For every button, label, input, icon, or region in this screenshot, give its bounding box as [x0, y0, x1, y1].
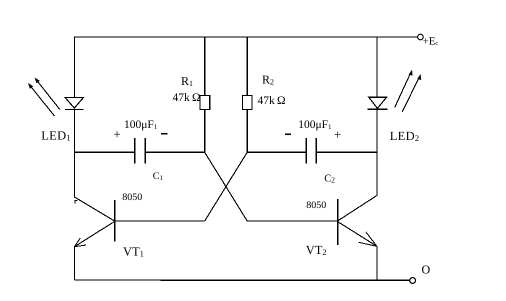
svg-text:LED2: LED2: [390, 129, 420, 143]
svg-text:100μF1: 100μF1: [124, 119, 158, 131]
label minus C1: [161, 133, 167, 135]
wire C1 left lead: [75, 151, 135, 153]
resistor R2 box: [243, 95, 253, 109]
capacitor C1: [135, 138, 145, 163]
svg-text:R1: R1: [181, 74, 193, 88]
transistor VT1 collector diagonal: [74, 197, 114, 221]
transistor VT2 collector diagonal: [338, 195, 378, 221]
resistor R1 box: [200, 95, 210, 109]
transistor VT1 base bar: [114, 200, 116, 241]
wire VT2 base: [247, 220, 337, 222]
svg-text:O: O: [422, 263, 431, 277]
label minus C2: [285, 133, 291, 135]
svg-text:C2: C2: [324, 174, 335, 185]
svg-text:VT2: VT2: [306, 243, 327, 257]
wire VT2 emitter to bottom rail: [376, 246, 378, 280]
svg-text:+: +: [334, 127, 341, 142]
wire C1 right lead: [145, 151, 204, 153]
wire cross diagonal D2 from C2 node to VT1 base: [205, 152, 248, 221]
wire C2 left lead: [247, 151, 306, 153]
LED1 light arrow b: [35, 78, 60, 110]
LED LED1: [65, 98, 84, 110]
wire top supply rail: [75, 36, 418, 38]
svg-text:8050: 8050: [122, 192, 142, 203]
svg-text:R2: R2: [262, 73, 274, 87]
wire LED1 cathode to VT1 collector: [74, 109, 76, 197]
wire C2 right lead: [316, 151, 377, 153]
transistor VT1 emitter diagonal with arrow: [74, 222, 114, 247]
LED LED2: [368, 97, 388, 109]
svg-text:100μF1: 100μF1: [298, 119, 332, 131]
wire R2 bottom to C2 junction: [246, 110, 248, 153]
hook artifact at VT1 collector junction: [75, 201, 78, 204]
transistor VT2 base bar: [337, 199, 339, 245]
wire VT1 emitter to bottom rail: [74, 246, 76, 280]
svg-text:+Ec: +Ec: [423, 36, 439, 48]
wire R1 branch top: [204, 36, 206, 95]
capacitor C2: [306, 138, 316, 163]
wire bottom rail: [75, 279, 410, 281]
wire R2 branch top: [246, 36, 248, 95]
LED2 light arrow a: [395, 70, 413, 108]
terminal E circle: [418, 34, 424, 40]
LED2 light arrow b: [402, 74, 421, 112]
wire LED2 branch top: [376, 36, 378, 97]
LED1 light arrow a: [28, 83, 55, 116]
svg-text:LED1: LED1: [41, 129, 71, 143]
wire cross diagonal D1 from C1 node to VT2 base: [205, 152, 248, 221]
svg-text:47k Ω: 47k Ω: [258, 95, 286, 107]
svg-text:47k Ω: 47k Ω: [173, 92, 201, 104]
terminal O circle: [410, 278, 416, 284]
wire LED2 cathode to VT2 collector: [376, 109, 378, 195]
wire LED1 branch top: [74, 36, 76, 97]
svg-text:+: +: [113, 126, 120, 141]
svg-text:8050: 8050: [306, 200, 326, 211]
transistor VT2 emitter diagonal with arrow: [338, 222, 377, 247]
svg-text:VT1: VT1: [123, 245, 144, 259]
wire VT1 base: [115, 220, 205, 222]
svg-text:C1: C1: [153, 171, 164, 182]
wire R1 bottom to C1 junction: [204, 110, 206, 153]
